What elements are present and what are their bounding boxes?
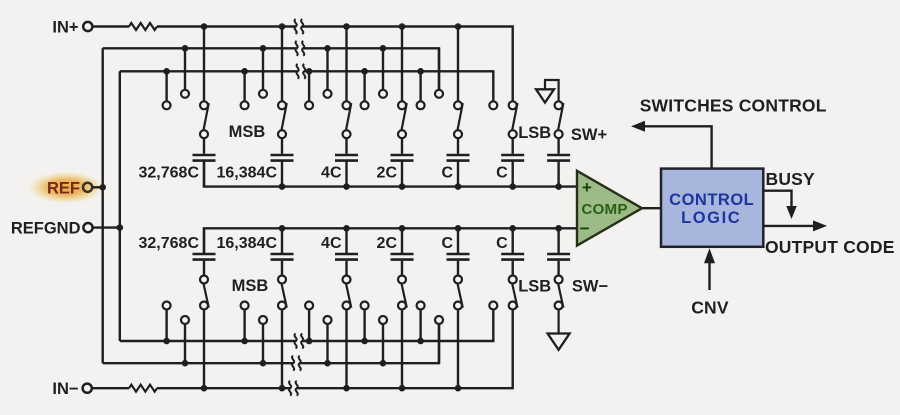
junction REFGND bus bit4 bottom — [361, 338, 368, 345]
wire REF bottom bus — [103, 323, 439, 363]
junction IN+ bus bit2 top — [279, 23, 286, 30]
switch arm bit4 bottom — [398, 276, 407, 308]
wire REFGND throw stub bit1 bottom — [165, 308, 167, 341]
switch throw contact IN- bit6 bottom — [509, 302, 517, 310]
wire REF throw stub bit5 bottom — [438, 323, 440, 363]
junction comparator+ bus bit2 — [279, 183, 286, 190]
svg-text:4C: 4C — [321, 235, 342, 252]
capacitor 2C top — [391, 138, 414, 161]
svg-text:32,768C: 32,768C — [139, 235, 200, 252]
wire IN- throw stub bit3 bottom — [345, 308, 347, 388]
resistor R2 on IN- — [92, 385, 157, 392]
switch throw contact IN+ bit5 top — [454, 101, 462, 109]
switch throw contact REF bit2 bottom — [259, 316, 267, 324]
svg-text:16,384C: 16,384C — [217, 165, 278, 182]
wire CNV input — [704, 248, 715, 290]
wire IN+ throw stub bit1 top — [203, 27, 205, 103]
wire IN+ throw stub bit2 top — [281, 27, 283, 103]
switch throw contact REFGND bit6 bottom — [489, 302, 497, 310]
switch throw contact REF bit2 top — [259, 90, 267, 98]
svg-text:C: C — [441, 235, 453, 252]
svg-text:LOGIC: LOGIC — [681, 209, 741, 227]
svg-text:−: − — [580, 219, 590, 238]
switch throw contact REFGND bit6 top — [489, 101, 497, 109]
junction IN+ bus bit3 top — [343, 23, 350, 30]
switch throw contact IN+ bit2 top — [278, 101, 286, 109]
svg-text:2C: 2C — [377, 165, 398, 182]
wire cap to comparator bus bit1 top — [203, 161, 205, 187]
junction comparator+ bus bit5 — [455, 183, 462, 190]
wire OUTPUT CODE — [763, 220, 827, 231]
break symbol on REF bottom bus — [294, 361, 299, 365]
svg-text:C: C — [496, 165, 508, 182]
svg-text:2C: 2C — [377, 235, 398, 252]
switch arm bit2 top — [278, 103, 287, 138]
junction REFGND bus bit2 top — [241, 68, 248, 75]
switch arm bit5 top — [454, 103, 463, 138]
svg-text:OUTPUT CODE: OUTPUT CODE — [765, 237, 895, 257]
junction comparator+ bus bit3 — [343, 183, 350, 190]
wire REF throw stub bit1 top — [184, 48, 186, 91]
break symbol on REF top bus — [297, 46, 302, 50]
wire REFGND throw stub bit5 top — [419, 71, 421, 102]
break symbol on REFGND bottom bus — [296, 339, 301, 343]
junction REFGND bus bit1 top — [163, 68, 170, 75]
wire REFGND throw stub bit3 bottom — [308, 308, 310, 341]
wire REFGND rail (vertical) — [93, 71, 120, 341]
junction SW- on comparator- bus — [555, 225, 562, 232]
capacitor 32,768C bottom — [193, 254, 216, 276]
switch throw contact IN- bit2 bottom — [278, 302, 286, 310]
svg-text:BUSY: BUSY — [766, 169, 816, 189]
junction REFGND bus bit1 bottom — [163, 338, 170, 345]
svg-text:16,384C: 16,384C — [217, 235, 278, 252]
junction IN- bus bit2 bottom — [279, 385, 286, 392]
wire comparator + input bus — [204, 161, 577, 187]
svg-text:LSB: LSB — [518, 278, 551, 296]
switch throw contact REFGND bit1 bottom — [163, 302, 171, 310]
wire BUSY output — [763, 191, 796, 219]
switch arm bit4 top — [398, 103, 407, 138]
input terminal REFGND — [11, 220, 93, 238]
switch SW- — [555, 276, 564, 310]
switch throw contact REFGND bit5 bottom — [417, 302, 425, 310]
wire REF throw stub bit1 bottom — [184, 323, 186, 363]
junction comparator- bus bit4 — [399, 225, 406, 232]
switch throw contact IN- bit5 bottom — [454, 302, 462, 310]
svg-text:CONTROL: CONTROL — [669, 191, 754, 209]
junction REFGND bus bit2 bottom — [241, 338, 248, 345]
capacitor C bottom — [501, 254, 524, 276]
input terminal IN- — [52, 380, 91, 398]
capacitor 32,768C top — [193, 138, 216, 161]
switch throw contact IN- bit4 bottom — [398, 302, 406, 310]
svg-text:COMP: COMP — [581, 201, 627, 218]
switch throw contact REFGND bit2 top — [241, 101, 249, 109]
capacitor C bottom — [447, 254, 470, 276]
switch throw contact REFGND bit4 bottom — [361, 302, 369, 310]
switch throw contact REF bit4 top — [379, 90, 387, 98]
wire IN- throw stub bit5 bottom — [457, 308, 459, 388]
wire REF throw stub bit4 top — [382, 48, 384, 91]
svg-text:MSB: MSB — [232, 277, 269, 295]
switch throw contact REFGND bit1 top — [163, 101, 171, 109]
wire IN+ throw stub bit3 top — [345, 27, 347, 103]
wire cap to comparator bus bit3 bottom — [345, 228, 347, 254]
junction REF bus bit4 top — [380, 45, 387, 52]
switch throw contact IN+ bit4 top — [398, 101, 406, 109]
junction comparator+ bus bit4 — [399, 183, 406, 190]
wire IN- throw stub bit4 bottom — [401, 308, 403, 388]
switch arm bit3 top — [343, 103, 352, 138]
junction REF bus bit3 top — [324, 45, 331, 52]
junction REF rail — [99, 184, 106, 191]
switch arm bit1 top — [200, 103, 209, 138]
wire REF rail (vertical) — [92, 48, 102, 363]
junction IN+ bus bit5 top — [455, 23, 462, 30]
junction IN- bus bit3 bottom — [343, 385, 350, 392]
wire REFGND throw stub bit3 top — [308, 71, 310, 102]
svg-text:32,768C: 32,768C — [139, 165, 200, 182]
break symbol on IN- bus — [291, 386, 296, 390]
wire IN- bottom bus — [157, 308, 513, 388]
junction REF bus bit1 bottom — [182, 360, 189, 367]
junction REFGND bus bit3 bottom — [306, 338, 313, 345]
wire cap to comparator bus bit2 top — [281, 161, 283, 187]
junction REFGND bus bit5 top — [417, 68, 424, 75]
ground symbol for SW+ — [536, 80, 559, 103]
switch arm bit6 bottom — [509, 276, 518, 308]
input terminal IN+ — [52, 19, 92, 37]
svg-text:IN−: IN− — [52, 380, 78, 398]
wire IN+ throw stub bit5 top — [457, 27, 459, 103]
switch throw contact IN+ bit3 top — [343, 101, 351, 109]
svg-text:IN+: IN+ — [52, 19, 78, 37]
capacitor at SW- — [547, 228, 570, 276]
junction REFGND bus bit3 top — [306, 68, 313, 75]
switch SW+ — [555, 101, 564, 138]
wire IN- throw stub bit2 bottom — [281, 308, 283, 388]
switch throw contact REFGND bit5 top — [417, 101, 425, 109]
junction IN- bus bit1 bottom — [201, 385, 208, 392]
switch throw contact REF bit4 bottom — [379, 316, 387, 324]
node REF (highlighted) — [28, 171, 104, 203]
wire cap to comparator bus bit6 bottom — [512, 228, 514, 254]
wire REFGND throw stub bit5 bottom — [419, 308, 421, 341]
capacitor C top — [447, 138, 470, 161]
svg-text:SW+: SW+ — [571, 126, 607, 144]
switch throw contact REF bit3 bottom — [324, 316, 332, 324]
junction REF bus bit2 top — [260, 45, 267, 52]
junction IN+ bus bit1 top — [201, 23, 208, 30]
capacitor C top — [501, 138, 524, 161]
svg-text:SWITCHES CONTROL: SWITCHES CONTROL — [640, 95, 827, 115]
wire IN- throw stub bit1 bottom — [203, 308, 205, 388]
svg-text:REF: REF — [47, 179, 80, 197]
junction REFGND rail — [117, 224, 124, 231]
junction comparator- bus bit2 — [279, 225, 286, 232]
ground symbol for SW- — [548, 309, 570, 350]
switch throw contact REFGND bit2 bottom — [241, 302, 249, 310]
wire cap to comparator bus bit1 bottom — [203, 228, 205, 254]
svg-text:+: + — [582, 178, 592, 197]
capacitor 4C bottom — [335, 254, 358, 276]
junction REFGND bus bit4 top — [361, 68, 368, 75]
wire REFGND top bus — [120, 71, 494, 102]
svg-text:REFGND: REFGND — [11, 220, 81, 238]
wire REFGND throw stub bit2 bottom — [243, 308, 245, 341]
svg-text:MSB: MSB — [229, 123, 266, 141]
switch arm bit2 bottom — [278, 276, 287, 308]
wire REFGND throw stub bit4 bottom — [363, 308, 365, 341]
wire cap to comparator bus bit3 top — [345, 161, 347, 187]
wire REF top bus — [103, 48, 439, 91]
svg-text:CNV: CNV — [691, 298, 729, 318]
switch throw contact IN- bit3 bottom — [343, 302, 351, 310]
wire REF throw stub bit2 bottom — [262, 323, 264, 363]
wire comparator output — [642, 207, 661, 209]
switch throw contact IN- bit1 bottom — [200, 302, 208, 310]
wire cap to comparator bus bit6 top — [512, 161, 514, 187]
junction IN+ bus bit4 top — [399, 23, 406, 30]
capacitor 2C bottom — [391, 254, 414, 276]
svg-text:C: C — [496, 235, 508, 252]
wire cap to comparator bus bit5 bottom — [457, 228, 459, 254]
switch throw contact REF bit1 top — [181, 90, 189, 98]
wire REFGND throw stub bit2 top — [243, 71, 245, 102]
junction IN- bus bit4 bottom — [399, 385, 406, 392]
wire IN+ throw stub bit4 top — [401, 27, 403, 103]
break symbol on REFGND top bus — [298, 69, 303, 73]
op-amp comparator U1 — [577, 171, 642, 246]
wire REF throw stub bit4 bottom — [382, 323, 384, 363]
switch throw contact IN+ bit6 top — [509, 101, 517, 109]
junction REF bus bit2 bottom — [260, 360, 267, 367]
capacitor 16,384C top — [271, 138, 294, 161]
wire SWITCHES CONTROL — [631, 121, 712, 169]
svg-text:C: C — [441, 165, 453, 182]
wire comparator - input bus — [204, 228, 577, 254]
resistor R1 on IN+ — [93, 23, 157, 30]
junction REF bus bit3 bottom — [324, 360, 331, 367]
switch arm bit5 bottom — [454, 276, 463, 308]
wire REFGND bottom bus — [120, 308, 494, 341]
wire REFGND throw stub bit1 top — [165, 71, 167, 102]
capacitor at SW+ — [547, 138, 570, 187]
junction comparator+ bus bit6 — [509, 183, 516, 190]
junction REF bus bit1 top — [182, 45, 189, 52]
junction comparator- bus bit6 — [509, 225, 516, 232]
wire REF throw stub bit2 top — [262, 48, 264, 91]
switch throw contact IN+ bit1 top — [200, 101, 208, 109]
wire REF throw stub bit3 bottom — [326, 323, 328, 363]
control logic block U2 — [661, 169, 763, 247]
switch throw contact REF bit1 bottom — [181, 316, 189, 324]
wire cap to comparator bus bit4 bottom — [401, 228, 403, 254]
capacitor 4C top — [335, 138, 358, 161]
wire REF throw stub bit5 top — [438, 48, 440, 91]
switch arm bit1 bottom — [200, 276, 209, 308]
junction SW+ on comparator+ bus — [555, 183, 562, 190]
wire REF throw stub bit3 top — [326, 48, 328, 91]
junction REFGND bus bit5 bottom — [417, 338, 424, 345]
switch throw contact REFGND bit3 top — [305, 101, 313, 109]
switch throw contact REF bit3 top — [324, 90, 332, 98]
switch throw contact REFGND bit4 top — [361, 101, 369, 109]
wire REFGND throw stub bit4 top — [363, 71, 365, 102]
capacitor 16,384C bottom — [271, 254, 294, 276]
svg-text:SW−: SW− — [572, 278, 608, 296]
svg-text:LSB: LSB — [518, 124, 551, 142]
junction IN- bus bit5 bottom — [455, 385, 462, 392]
switch throw contact REF bit5 top — [435, 90, 443, 98]
junction comparator- bus bit5 — [455, 225, 462, 232]
wire IN+ top bus — [157, 27, 513, 103]
junction comparator- bus bit3 — [343, 225, 350, 232]
switch arm bit6 top — [509, 103, 518, 138]
switch throw contact REF bit5 bottom — [435, 316, 443, 324]
wire cap to comparator bus bit5 top — [457, 161, 459, 187]
svg-text:4C: 4C — [321, 165, 342, 182]
wire cap to comparator bus bit4 top — [401, 161, 403, 187]
switch arm bit3 bottom — [343, 276, 352, 308]
switch throw contact REFGND bit3 bottom — [305, 302, 313, 310]
break symbol on IN+ bus — [296, 24, 301, 28]
junction REF bus bit4 bottom — [380, 360, 387, 367]
wire cap to comparator bus bit2 bottom — [281, 228, 283, 254]
